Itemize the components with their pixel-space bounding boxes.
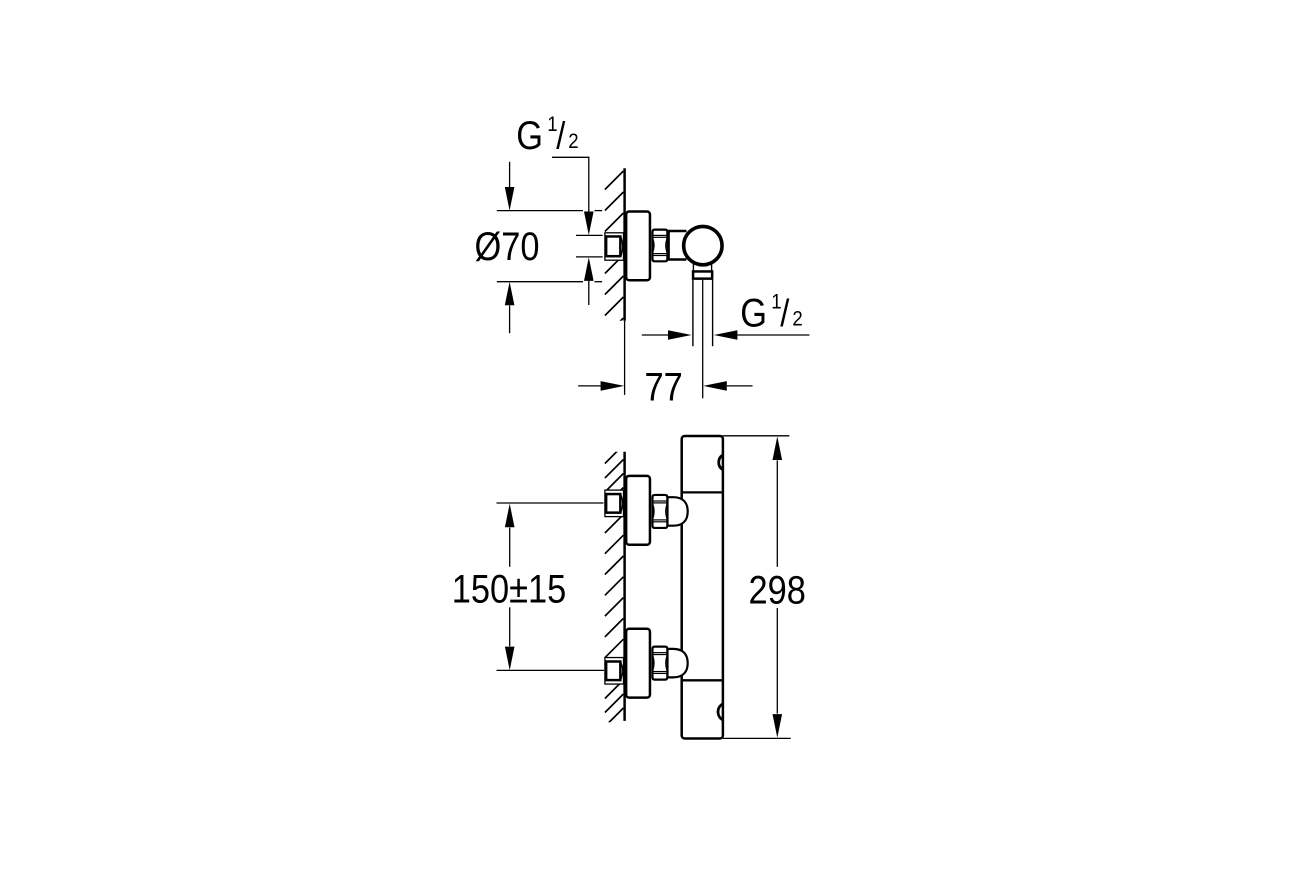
wall extension line for 77 dim — [624, 321, 626, 395]
svg-text:Ø70: Ø70 — [474, 224, 539, 269]
top supply square (front view) — [606, 494, 620, 513]
bottom supply pipe behind wall (front view) — [605, 658, 624, 685]
298 dim line lower segment — [776, 608, 778, 714]
pipe centre line — [702, 280, 704, 398]
top cap seam — [683, 491, 723, 493]
label G1/2 (pipe) — [740, 290, 802, 335]
77 dimension line left part with right-pointing arrow — [578, 385, 601, 387]
dia70 bottom arrow — [509, 306, 511, 334]
collar (top view) — [693, 271, 712, 278]
bottom cap seam — [683, 679, 723, 681]
dia70 top extension line — [497, 210, 583, 212]
77 dimension line right part with left-pointing arrow — [703, 381, 727, 391]
bottom flange escutcheon (front view) — [626, 629, 650, 698]
top supply pipe behind wall (front view) — [605, 490, 624, 516]
bottom hex nut (front view) — [652, 647, 667, 680]
hex nut (top view) — [652, 230, 667, 262]
supply flare arc (top view) — [621, 237, 623, 256]
square bottom extension line — [576, 256, 603, 258]
svg-text:298: 298 — [749, 567, 806, 612]
svg-text:2: 2 — [792, 307, 802, 331]
wall line (top view) — [623, 168, 626, 321]
svg-text:2: 2 — [568, 130, 578, 154]
down pipe (top view) — [692, 280, 694, 346]
298 dim top extension line — [723, 435, 790, 437]
top S-union dome — [668, 497, 688, 526]
150 dim top extension line — [497, 502, 604, 504]
flange escutcheon (top view) — [626, 212, 650, 281]
bottom S-union dome — [668, 649, 688, 678]
150 dim bottom extension line — [497, 669, 605, 671]
thermostat bar body — [682, 436, 723, 739]
svg-text:77: 77 — [645, 364, 683, 409]
dia70 top arrow — [509, 162, 511, 187]
298 dim bottom extension line — [723, 737, 791, 739]
G1/2 up arrowhead — [584, 257, 594, 281]
G1/2 top hook leader — [552, 157, 589, 212]
supply square G1/2 (top view) — [606, 236, 620, 256]
top hex nut (front view) — [652, 495, 667, 528]
square top extension line — [576, 234, 603, 236]
svg-text:150±15: 150±15 — [452, 566, 567, 611]
svg-text:G: G — [516, 113, 543, 158]
bottom port arc on right edge — [718, 704, 723, 720]
bottom supply flare arc — [621, 663, 623, 680]
G1/2 pipe dimension line — [642, 334, 669, 336]
neck lines under circle — [692, 264, 694, 272]
svg-text:/: / — [780, 292, 789, 335]
G1/2 down arrowhead — [584, 212, 594, 236]
298 up arrowhead — [773, 436, 783, 460]
label G1/2 (top) — [516, 113, 578, 158]
top supply flare arc — [621, 495, 623, 512]
valve body (top view) — [669, 231, 687, 260]
298 down arrowhead — [773, 714, 783, 738]
top flange escutcheon (front view) — [626, 476, 650, 545]
valve circle (top view) — [684, 226, 722, 264]
298 dim line upper segment — [776, 460, 778, 567]
svg-text:/: / — [556, 114, 565, 157]
wall hatching (top view) — [605, 171, 624, 337]
wall hatching (front view) — [605, 445, 624, 727]
G1/2 lower arrow tail — [588, 281, 590, 305]
150 up arrowhead — [505, 504, 515, 528]
150 dim line lower segment — [509, 607, 511, 646]
150 down arrowhead — [505, 647, 515, 671]
dia70 bottom extension line — [497, 281, 583, 283]
top port arc on right edge — [719, 455, 723, 470]
wall line (front view) — [623, 452, 626, 721]
150 dim line upper segment — [509, 528, 511, 567]
bottom supply square (front view) — [606, 662, 620, 681]
supply pipe behind wall (thin rect, top view) — [605, 233, 624, 260]
svg-text:G: G — [740, 290, 767, 335]
